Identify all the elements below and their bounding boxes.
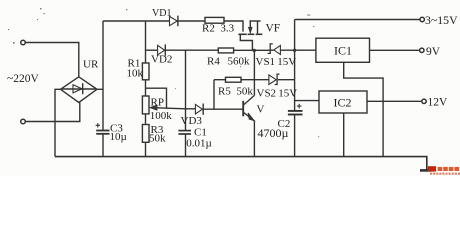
svg-text:UR: UR bbox=[83, 59, 99, 71]
wire VF top link bbox=[249, 20, 260, 22]
wire top output rail bbox=[295, 19, 420, 21]
transistor V base bar bbox=[242, 101, 244, 117]
wire bottom AC input bbox=[26, 103, 80, 122]
zener VS2 bbox=[254, 79, 294, 81]
svg-text:RP: RP bbox=[151, 97, 164, 109]
wire wiper to VD3 bbox=[186, 108, 196, 110]
svg-text:4700µ: 4700µ bbox=[258, 126, 289, 140]
wire VS1 to IC1 bbox=[280, 49, 316, 51]
MOSFET VF right lead bbox=[257, 21, 259, 33]
wire bridge left vertex to ground bbox=[55, 89, 61, 156]
svg-text:VF: VF bbox=[266, 23, 281, 35]
node dot B bbox=[293, 49, 296, 52]
wire R5 left leg bbox=[213, 80, 215, 109]
resistor R3 bbox=[142, 125, 149, 143]
svg-text:50k: 50k bbox=[149, 133, 166, 145]
terminal 9V bbox=[420, 48, 424, 52]
wire top AC input bbox=[26, 43, 79, 77]
zener VS1 bbox=[268, 44, 273, 54]
wire R5 branch bbox=[214, 79, 254, 81]
wire R4 to VS1 bbox=[234, 49, 270, 51]
resistor R2 bbox=[205, 17, 224, 23]
transistor V collector bbox=[244, 95, 255, 104]
scan specks bbox=[8, 8, 319, 137]
wire IC1 output 9V bbox=[370, 49, 420, 51]
svg-text:VS1 15V: VS1 15V bbox=[256, 56, 297, 68]
svg-text:10µ: 10µ bbox=[110, 131, 127, 143]
svg-text:10k: 10k bbox=[127, 68, 144, 80]
svg-text:3~15V: 3~15V bbox=[425, 13, 458, 27]
diode VD1 bbox=[170, 16, 178, 25]
wire +DC rail vertical bbox=[102, 21, 104, 157]
resistor R4 bbox=[218, 48, 233, 53]
ground rail bbox=[55, 157, 427, 170]
wire R1/RP/R3 chain bbox=[145, 21, 147, 157]
svg-text:VS2 15V: VS2 15V bbox=[257, 88, 298, 100]
wire VF source down to collector node bbox=[253, 50, 255, 95]
MOSFET VF gate bar bbox=[238, 33, 246, 35]
IC1 box bbox=[316, 38, 370, 62]
wire IC1 bottom loop bbox=[344, 62, 383, 156]
wire bridge right vertex stub bbox=[97, 88, 103, 90]
terminal 3~15V bbox=[420, 17, 424, 21]
wire VD3 to base bbox=[203, 108, 243, 110]
bridge rectifier UR diamond bbox=[61, 77, 98, 103]
svg-text:R5 50k: R5 50k bbox=[218, 86, 253, 98]
terminal bottom-left bbox=[21, 119, 26, 124]
terminal 12V bbox=[422, 99, 426, 103]
wire IC2 bottom bbox=[343, 113, 345, 157]
svg-text:VD2: VD2 bbox=[151, 54, 172, 66]
wire VD2 branch bbox=[146, 49, 158, 51]
wire IC2 input bbox=[295, 100, 319, 102]
resistor R1 bbox=[142, 63, 149, 80]
wire line A vertical with C1 bbox=[185, 50, 187, 156]
terminal top-left bbox=[21, 40, 26, 45]
diode VD2 bbox=[158, 45, 165, 55]
wire IC2 output 12V bbox=[367, 100, 422, 102]
svg-text:~220V: ~220V bbox=[7, 73, 39, 85]
svg-text:IC1: IC1 bbox=[334, 44, 352, 58]
svg-text:V: V bbox=[257, 104, 265, 116]
watermark bbox=[428, 166, 460, 175]
bridge inner diode bbox=[62, 88, 97, 90]
resistor R5 bbox=[226, 77, 242, 82]
potentiometer RP wiper arrow bbox=[150, 105, 157, 110]
capacitor C1 bbox=[178, 130, 191, 132]
svg-text:0.01µ: 0.01µ bbox=[186, 137, 212, 149]
svg-text:VD3: VD3 bbox=[181, 115, 203, 127]
capacitor C3 bbox=[96, 130, 109, 132]
wire VD2 to R4 bbox=[165, 49, 218, 51]
svg-text:9V: 9V bbox=[426, 46, 441, 58]
MOSFET VF middle lead with arrow bbox=[249, 21, 251, 28]
wire RP wiper link bbox=[146, 88, 167, 108]
svg-text:R4 560k: R4 560k bbox=[207, 56, 250, 68]
svg-text:12V: 12V bbox=[428, 97, 449, 109]
svg-text:100k: 100k bbox=[150, 110, 173, 122]
wire VF source bbox=[240, 35, 252, 50]
svg-text:VD1: VD1 bbox=[152, 8, 171, 19]
wire VS/C2 vertical bbox=[294, 20, 296, 157]
capacitor C2 bbox=[288, 110, 303, 112]
svg-text:IC2: IC2 bbox=[334, 96, 352, 110]
IC2 box bbox=[319, 91, 367, 113]
transistor V emitter bbox=[244, 113, 255, 157]
node dot A bbox=[253, 49, 256, 52]
wire top rail bbox=[103, 21, 243, 32]
diode VD3 bbox=[195, 104, 202, 114]
svg-text:R2 3.3: R2 3.3 bbox=[202, 23, 235, 35]
potentiometer RP body bbox=[142, 96, 149, 114]
ground rail end bar bbox=[420, 169, 431, 172]
